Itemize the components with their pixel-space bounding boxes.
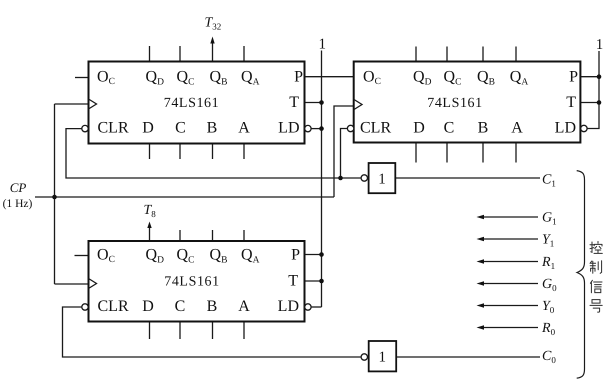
svg-text:CP: CP bbox=[10, 180, 27, 195]
svg-text:A: A bbox=[238, 298, 250, 315]
svg-text:CLR: CLR bbox=[98, 298, 129, 315]
svg-text:CLR: CLR bbox=[360, 120, 391, 137]
svg-text:74LS161: 74LS161 bbox=[427, 96, 483, 111]
svg-text:D: D bbox=[413, 120, 425, 137]
svg-text:1: 1 bbox=[378, 350, 386, 366]
svg-text:T: T bbox=[289, 94, 299, 111]
svg-text:C: C bbox=[175, 120, 186, 137]
svg-text:74LS161: 74LS161 bbox=[164, 96, 220, 111]
svg-text:1: 1 bbox=[318, 37, 326, 53]
svg-text:B: B bbox=[207, 298, 218, 315]
svg-text:T: T bbox=[566, 94, 576, 111]
svg-text:1: 1 bbox=[378, 172, 386, 188]
svg-text:(1 Hz): (1 Hz) bbox=[3, 198, 33, 210]
svg-text:D: D bbox=[142, 298, 154, 315]
svg-text:74LS161: 74LS161 bbox=[164, 275, 220, 290]
svg-text:D: D bbox=[142, 120, 154, 137]
svg-text:A: A bbox=[238, 120, 250, 137]
svg-text:1: 1 bbox=[596, 37, 604, 53]
svg-text:C: C bbox=[444, 120, 455, 137]
svg-text:P: P bbox=[569, 69, 578, 86]
svg-text:B: B bbox=[207, 120, 218, 137]
svg-text:LD: LD bbox=[278, 120, 299, 137]
svg-text:B: B bbox=[478, 120, 489, 137]
svg-text:LD: LD bbox=[278, 298, 299, 315]
svg-text:CLR: CLR bbox=[98, 120, 129, 137]
svg-text:A: A bbox=[511, 120, 523, 137]
svg-text:LD: LD bbox=[555, 120, 576, 137]
svg-text:C: C bbox=[175, 298, 186, 315]
svg-text:P: P bbox=[294, 69, 303, 86]
svg-text:P: P bbox=[291, 247, 300, 264]
svg-text:T: T bbox=[288, 273, 298, 290]
